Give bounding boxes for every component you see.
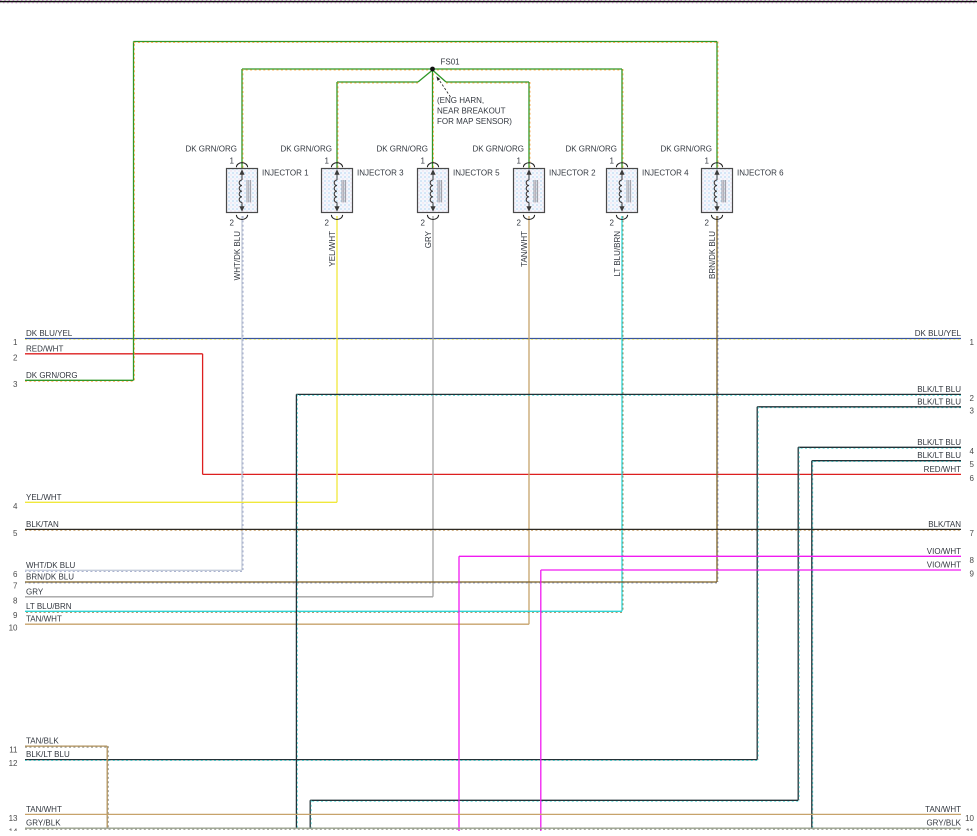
pin 13 left label TAN/WHT — [9, 805, 62, 823]
svg-text:DK GRN/ORG: DK GRN/ORG — [185, 145, 237, 154]
pin 5 right label BLK/LT BLU — [917, 451, 974, 469]
label wire color LT BLU/BRN below injector 4 — [613, 231, 622, 277]
svg-text:13: 13 — [9, 814, 18, 823]
wire RED/WHT pin2-left to pin6-right — [25, 354, 961, 475]
pin 8 left label GRY — [13, 587, 44, 605]
pin 5 left label BLK/TAN — [13, 520, 59, 538]
svg-text:8: 8 — [13, 596, 18, 605]
pin 1 right label DK BLU/YEL — [915, 329, 975, 347]
pin 12 left label BLK/LT BLU — [9, 750, 70, 768]
wire BLK/LT BLU pin2-right down at x296 — [296, 394, 961, 828]
svg-text:2: 2 — [705, 219, 710, 228]
svg-text:10: 10 — [965, 814, 974, 823]
wire DK BLU/YEL pin1-left to pin1-right — [25, 339, 961, 340]
pin 2 left label RED/WHT — [13, 344, 63, 362]
svg-text:1: 1 — [421, 157, 426, 166]
wire YEL/WHT injector 3 pin 2 to pin4-left — [25, 216, 337, 502]
wire DK GRN/ORG pin3-left feed to injector 6 — [25, 42, 718, 382]
svg-text:VIO/WHT: VIO/WHT — [927, 561, 961, 570]
svg-text:DK GRN/ORG: DK GRN/ORG — [660, 145, 712, 154]
injector 6 (INJECTOR 6) — [702, 169, 785, 213]
wire TAN/WHT injector 2 pin 2 to pin10-left — [25, 216, 529, 624]
pin 6 left label WHT/DK BLU — [13, 561, 76, 579]
pin 4 left label YEL/WHT — [13, 493, 62, 511]
pin 1 injector 2 — [517, 157, 535, 168]
svg-text:6: 6 — [970, 474, 975, 483]
svg-text:GRY: GRY — [26, 587, 44, 596]
svg-text:(ENG HARN,: (ENG HARN, — [437, 96, 484, 105]
pin 1 injector 1 — [230, 157, 248, 168]
svg-text:NEAR BREAKOUT: NEAR BREAKOUT — [437, 107, 506, 116]
label DK GRN/ORG above injector 6 — [660, 145, 712, 154]
wire WHT/DK BLU injector 1 pin 2 to pin6-left — [25, 216, 243, 571]
svg-text:11: 11 — [966, 828, 975, 832]
svg-text:2: 2 — [970, 394, 975, 403]
svg-text:1: 1 — [230, 157, 235, 166]
pin 2 right label BLK/LT BLU — [917, 385, 974, 403]
wire TAN/WHT pin13-left to pin10-right — [25, 813, 961, 815]
svg-text:BRN/DK BLU: BRN/DK BLU — [708, 231, 717, 279]
svg-text:9: 9 — [13, 611, 18, 620]
svg-text:DK GRN/ORG: DK GRN/ORG — [280, 145, 332, 154]
svg-text:3: 3 — [13, 380, 18, 389]
label wire color YEL/WHT below injector 3 — [328, 231, 337, 267]
svg-text:10: 10 — [9, 624, 18, 633]
svg-text:FS01: FS01 — [441, 58, 461, 67]
label wire color BRN/DK BLU below injector 6 — [708, 231, 717, 279]
injector 4 (INJECTOR 4) — [607, 169, 690, 213]
svg-text:LT BLU/BRN: LT BLU/BRN — [26, 602, 72, 611]
svg-text:8: 8 — [970, 556, 975, 565]
pin 1 injector 4 — [610, 157, 628, 168]
label wire color GRY below injector 5 — [424, 230, 433, 248]
wire DK GRN/ORG splice FS01 to injector 3 — [337, 70, 433, 168]
svg-text:TAN/WHT: TAN/WHT — [26, 805, 62, 814]
svg-text:TAN/WHT: TAN/WHT — [925, 805, 961, 814]
pin 3 right label BLK/LT BLU — [917, 397, 974, 415]
svg-text:TAN/WHT: TAN/WHT — [520, 231, 529, 267]
svg-text:VIO/WHT: VIO/WHT — [927, 547, 961, 556]
wire DK GRN/ORG splice FS01 to injector 2 — [433, 70, 531, 168]
label DK GRN/ORG above injector 3 — [280, 145, 332, 154]
svg-text:1: 1 — [517, 157, 522, 166]
wire GRY injector 5 pin 2 to pin8-left — [25, 216, 433, 597]
wire VIO/WHT pin9-right to bottom — [541, 570, 961, 831]
wire DK GRN/ORG splice FS01 to injector 5 — [433, 69, 434, 168]
svg-text:BLK/LT BLU: BLK/LT BLU — [917, 438, 961, 447]
svg-text:WHT/DK BLU: WHT/DK BLU — [233, 231, 242, 281]
svg-text:BLK/TAN: BLK/TAN — [26, 520, 59, 529]
pin 7 right label BLK/TAN — [928, 520, 974, 538]
svg-text:DK GRN/ORG: DK GRN/ORG — [26, 371, 78, 380]
svg-text:WHT/DK BLU: WHT/DK BLU — [26, 561, 76, 570]
svg-text:4: 4 — [970, 447, 975, 456]
svg-text:2: 2 — [230, 219, 235, 228]
svg-text:DK GRN/ORG: DK GRN/ORG — [376, 145, 428, 154]
svg-text:YEL/WHT: YEL/WHT — [328, 231, 337, 267]
wire TAN/BLK pin11-left down at x107 — [25, 746, 108, 828]
pin 9 left label LT BLU/BRN — [13, 602, 72, 620]
svg-text:TAN/BLK: TAN/BLK — [26, 737, 59, 746]
svg-text:2: 2 — [325, 219, 330, 228]
svg-text:INJECTOR 1: INJECTOR 1 — [262, 169, 309, 178]
pin 10 left label TAN/WHT — [9, 615, 62, 633]
svg-text:1: 1 — [970, 338, 975, 347]
svg-text:YEL/WHT: YEL/WHT — [26, 493, 62, 502]
svg-text:INJECTOR 4: INJECTOR 4 — [642, 169, 689, 178]
svg-text:7: 7 — [13, 582, 18, 591]
svg-text:INJECTOR 2: INJECTOR 2 — [549, 169, 596, 178]
svg-text:DK GRN/ORG: DK GRN/ORG — [565, 145, 617, 154]
svg-text:DK BLU/YEL: DK BLU/YEL — [26, 329, 73, 338]
svg-text:5: 5 — [13, 529, 18, 538]
svg-text:RED/WHT: RED/WHT — [26, 344, 63, 353]
wire BRN/DK BLU injector 6 pin 2 to pin7-left — [25, 216, 718, 583]
svg-text:BLK/LT BLU: BLK/LT BLU — [917, 385, 961, 394]
svg-text:BRN/DK BLU: BRN/DK BLU — [26, 573, 74, 582]
pin 1 injector 6 — [705, 157, 723, 168]
wire BLK/LT BLU pin4-right stair to bottom — [310, 447, 961, 829]
label DK GRN/ORG above injector 2 — [472, 145, 524, 154]
svg-text:GRY/BLK: GRY/BLK — [26, 819, 61, 828]
wire GRY/BLK pin14-left to pin11-right — [25, 828, 961, 829]
svg-text:1: 1 — [610, 157, 615, 166]
arrow to splice FS01 — [436, 76, 450, 97]
splice FS01 — [430, 58, 460, 72]
pin 6 right label RED/WHT — [924, 465, 975, 483]
svg-text:1: 1 — [13, 338, 18, 347]
svg-text:1: 1 — [325, 157, 330, 166]
pin 1 injector 5 — [421, 157, 439, 168]
svg-text:INJECTOR 6: INJECTOR 6 — [737, 169, 784, 178]
pin 1 left label DK BLU/YEL — [13, 329, 73, 347]
pin 7 left label BRN/DK BLU — [13, 573, 74, 591]
svg-text:BLK/LT BLU: BLK/LT BLU — [917, 451, 961, 460]
wire DK GRN/ORG splice FS01 to injector 1 — [242, 69, 433, 168]
svg-text:BLK/LT BLU: BLK/LT BLU — [917, 397, 961, 406]
pin 11 left label TAN/BLK — [9, 737, 59, 755]
svg-text:BLK/LT BLU: BLK/LT BLU — [26, 750, 70, 759]
svg-text:11: 11 — [9, 746, 18, 755]
svg-text:LT BLU/BRN: LT BLU/BRN — [613, 231, 622, 277]
pin 3 left label DK GRN/ORG — [13, 371, 78, 389]
label wire color TAN/WHT below injector 2 — [520, 231, 529, 267]
label wire color WHT/DK BLU below injector 1 — [233, 231, 242, 281]
wire DK GRN/ORG splice FS01 to injector 4 — [433, 69, 624, 168]
svg-text:12: 12 — [9, 759, 18, 768]
pin 8 right label VIO/WHT — [927, 547, 975, 565]
svg-text:2: 2 — [610, 219, 615, 228]
pin 11 right label GRY/BLK — [926, 819, 974, 836]
pin 2 injector 3 — [325, 215, 343, 228]
svg-text:INJECTOR 3: INJECTOR 3 — [357, 169, 404, 178]
svg-text:14: 14 — [9, 828, 18, 832]
wire BLK/LT BLU pin5-right to bottom — [812, 461, 961, 829]
svg-text:RED/WHT: RED/WHT — [924, 465, 961, 474]
injector 1 (INJECTOR 1) — [227, 169, 310, 213]
svg-text:GRY/BLK: GRY/BLK — [926, 819, 961, 828]
svg-text:BLK/TAN: BLK/TAN — [928, 520, 961, 529]
pin 2 injector 1 — [230, 215, 248, 228]
svg-text:3: 3 — [970, 406, 975, 415]
svg-text:DK BLU/YEL: DK BLU/YEL — [915, 329, 962, 338]
label DK GRN/ORG above injector 4 — [565, 145, 617, 154]
top page border — [0, 0, 977, 3]
wire VIO/WHT pin8-right to bottom — [459, 556, 961, 831]
pin 2 injector 2 — [517, 215, 535, 228]
injector 2 (INJECTOR 2) — [514, 169, 597, 213]
pin 2 injector 5 — [421, 215, 439, 228]
pin 4 right label BLK/LT BLU — [917, 438, 974, 456]
svg-text:INJECTOR 5: INJECTOR 5 — [453, 169, 500, 178]
svg-text:9: 9 — [970, 570, 975, 579]
svg-text:2: 2 — [13, 353, 18, 362]
svg-text:4: 4 — [13, 502, 18, 511]
pin 2 injector 6 — [705, 215, 723, 228]
injector 3 (INJECTOR 3) — [322, 169, 405, 213]
injector 5 (INJECTOR 5) — [418, 169, 501, 213]
note ENG HARN NEAR BREAKOUT FOR MAP SENSOR — [437, 96, 512, 126]
svg-text:2: 2 — [517, 219, 522, 228]
pin 10 right label TAN/WHT — [925, 805, 974, 823]
pin 2 injector 4 — [610, 215, 628, 228]
svg-text:GRY: GRY — [424, 230, 433, 248]
wire BLK/TAN pin5-left to pin7-right — [25, 529, 961, 530]
svg-text:FOR MAP SENSOR): FOR MAP SENSOR) — [437, 117, 512, 126]
label DK GRN/ORG above injector 1 — [185, 145, 237, 154]
pin 14 left label GRY/BLK — [9, 819, 62, 836]
svg-text:2: 2 — [421, 219, 426, 228]
pin 9 right label VIO/WHT — [927, 561, 975, 579]
svg-text:DK GRN/ORG: DK GRN/ORG — [472, 145, 524, 154]
wire LT BLU/BRN injector 4 pin 2 to pin9-left — [25, 216, 623, 612]
wire BLK/LT BLU pin3-right to pin12-left — [25, 407, 961, 761]
svg-text:5: 5 — [970, 460, 975, 469]
svg-text:7: 7 — [970, 529, 975, 538]
svg-text:TAN/WHT: TAN/WHT — [26, 615, 62, 624]
svg-text:6: 6 — [13, 570, 18, 579]
pin 1 injector 3 — [325, 157, 343, 168]
label DK GRN/ORG above injector 5 — [376, 145, 428, 154]
svg-text:1: 1 — [705, 157, 710, 166]
